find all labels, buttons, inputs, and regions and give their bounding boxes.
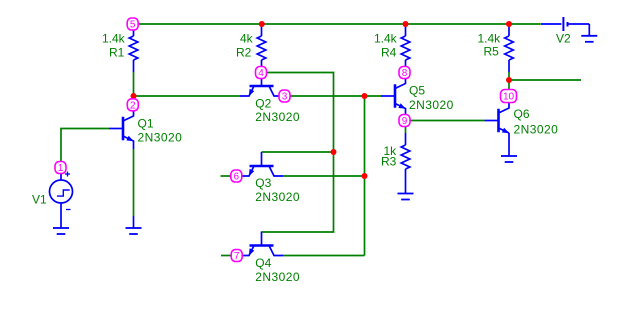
wire Q1 emitter to ground [133, 149, 135, 216]
junction dot Q3 base tap [331, 149, 337, 155]
svg-text:1: 1 [58, 163, 64, 174]
wire top power rail [139, 23, 541, 25]
wire node10 output stub [509, 79, 581, 81]
svg-text:1.4k: 1.4k [374, 32, 398, 46]
wire node7 stub [221, 255, 231, 257]
junction dot node2 row [131, 93, 137, 99]
svg-text:Q6: Q6 [514, 107, 530, 121]
voltage source V1 [32, 172, 73, 216]
svg-text:V1: V1 [32, 193, 47, 207]
svg-text:10: 10 [503, 92, 515, 103]
wire R3 top link [405, 127, 407, 134]
junction dot rail/R4 [403, 21, 409, 27]
svg-text:Q3: Q3 [255, 176, 271, 190]
svg-text:2N3020: 2N3020 [255, 270, 300, 284]
svg-text:2: 2 [130, 100, 136, 111]
ground at V2 [581, 24, 597, 42]
resistor R5 [478, 24, 514, 72]
wire node9 to Q6 base [411, 120, 485, 122]
svg-text:Q4: Q4 [255, 256, 271, 270]
ground under Q1 emitter [126, 216, 142, 234]
junction dot rail/R5 [506, 21, 512, 27]
wire node6 stub [221, 175, 231, 177]
wire V1 to Q1 base [61, 129, 109, 162]
svg-text:R4: R4 [381, 46, 397, 60]
svg-text:R3: R3 [381, 155, 397, 169]
wire node4 to Q4 base (via right vertical) [262, 73, 334, 233]
svg-text:4k: 4k [240, 32, 254, 46]
svg-text:7: 7 [234, 251, 240, 262]
node 4 [256, 67, 267, 80]
svg-text:R1: R1 [109, 46, 125, 60]
wire Q3 collector to node3 net [283, 175, 365, 177]
svg-text:Q1: Q1 [138, 117, 154, 131]
wire R1 bottom to node junction [133, 72, 135, 99]
transistor Q1 [109, 111, 182, 150]
svg-text:1.4k: 1.4k [102, 32, 126, 46]
node 1 [55, 162, 66, 175]
junction dot rail/R2 [259, 21, 265, 27]
junction dot node3 net top [362, 93, 368, 99]
ground under R3 [398, 181, 414, 200]
transistor Q5 [381, 79, 454, 115]
ground under Q6 emitter [501, 133, 517, 162]
node 9 [399, 115, 410, 128]
svg-text:9: 9 [402, 116, 408, 127]
svg-text:2N3020: 2N3020 [255, 190, 300, 204]
wire node3 to Q5 base [290, 95, 381, 97]
wire Q3 base to node4 net [262, 151, 334, 153]
svg-text:R5: R5 [484, 45, 500, 59]
svg-text:V2: V2 [556, 32, 571, 46]
node 7 [231, 250, 242, 263]
svg-text:2N3020: 2N3020 [514, 123, 559, 137]
wire Q4 collector to node3 net [283, 255, 365, 257]
node 10 [501, 90, 517, 103]
svg-text:Q5: Q5 [409, 84, 425, 98]
junction dot R5/output stub [506, 77, 512, 83]
wire R5 bottom to node10 [508, 72, 510, 90]
svg-text:2N3020: 2N3020 [255, 110, 300, 124]
resistor R2 [236, 24, 266, 72]
transistor Q4 [240, 232, 300, 285]
svg-text:R2: R2 [236, 46, 252, 60]
node 3 [279, 90, 290, 103]
transistor Q3 [240, 152, 300, 204]
transistor Q6 [485, 103, 559, 137]
resistor R3 [381, 133, 410, 181]
wire node3 net vertical [364, 96, 366, 256]
node 5 [127, 18, 138, 31]
battery V2 [541, 17, 589, 46]
node 2 [127, 99, 138, 112]
svg-text:2N3020: 2N3020 [409, 98, 454, 112]
wire node2 row to Q2 emitter [134, 95, 241, 97]
svg-text:4: 4 [258, 68, 264, 79]
svg-text:8: 8 [402, 68, 408, 79]
svg-text:Q2: Q2 [255, 97, 271, 111]
svg-text:1.4k: 1.4k [478, 31, 502, 45]
ground under V1 [53, 216, 69, 235]
svg-text:6: 6 [234, 172, 240, 183]
transistor Q2 [240, 72, 300, 124]
junction dot Q3 collector tap [362, 173, 368, 179]
svg-text:2N3020: 2N3020 [138, 131, 183, 145]
resistor R4 [374, 24, 410, 72]
svg-text:5: 5 [130, 20, 136, 31]
node 6 [231, 170, 242, 183]
node 8 [399, 67, 410, 80]
svg-text:3: 3 [282, 92, 288, 103]
resistor R1 [102, 24, 138, 72]
